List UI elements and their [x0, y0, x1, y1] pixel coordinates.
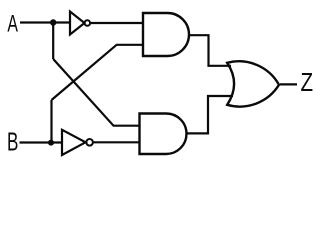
wire B junction up	[50, 100, 52, 143]
OR gate G3	[227, 61, 279, 106]
wire G1 output to OR top input	[189, 35, 231, 66]
wire U1 output to top AND	[90, 22, 143, 24]
AND gate G2 (bottom)	[140, 113, 187, 154]
wire B diagonal to top AND lower input	[52, 45, 144, 100]
svg-text:Z: Z	[301, 67, 314, 97]
wire A diagonal to lower AND	[53, 59, 139, 126]
wire G3 output	[280, 83, 297, 85]
wire A junction down	[52, 23, 54, 60]
inverter U2 (bottom NOT gate)	[62, 130, 86, 155]
inverter U2 bubble	[86, 139, 93, 146]
wire B input	[20, 141, 63, 143]
inverter U1 (top NOT gate)	[70, 12, 85, 35]
svg-text:A: A	[7, 11, 18, 38]
inverter U1 bubble	[85, 20, 91, 26]
node B junction dot	[48, 140, 54, 146]
svg-text:B: B	[7, 129, 18, 157]
wire A input	[20, 21, 70, 23]
AND gate G1 (top)	[143, 13, 189, 56]
wire G2 output to OR bottom input	[187, 96, 234, 133]
node A junction dot	[50, 19, 56, 25]
wire U2 output to bottom AND	[93, 141, 139, 143]
